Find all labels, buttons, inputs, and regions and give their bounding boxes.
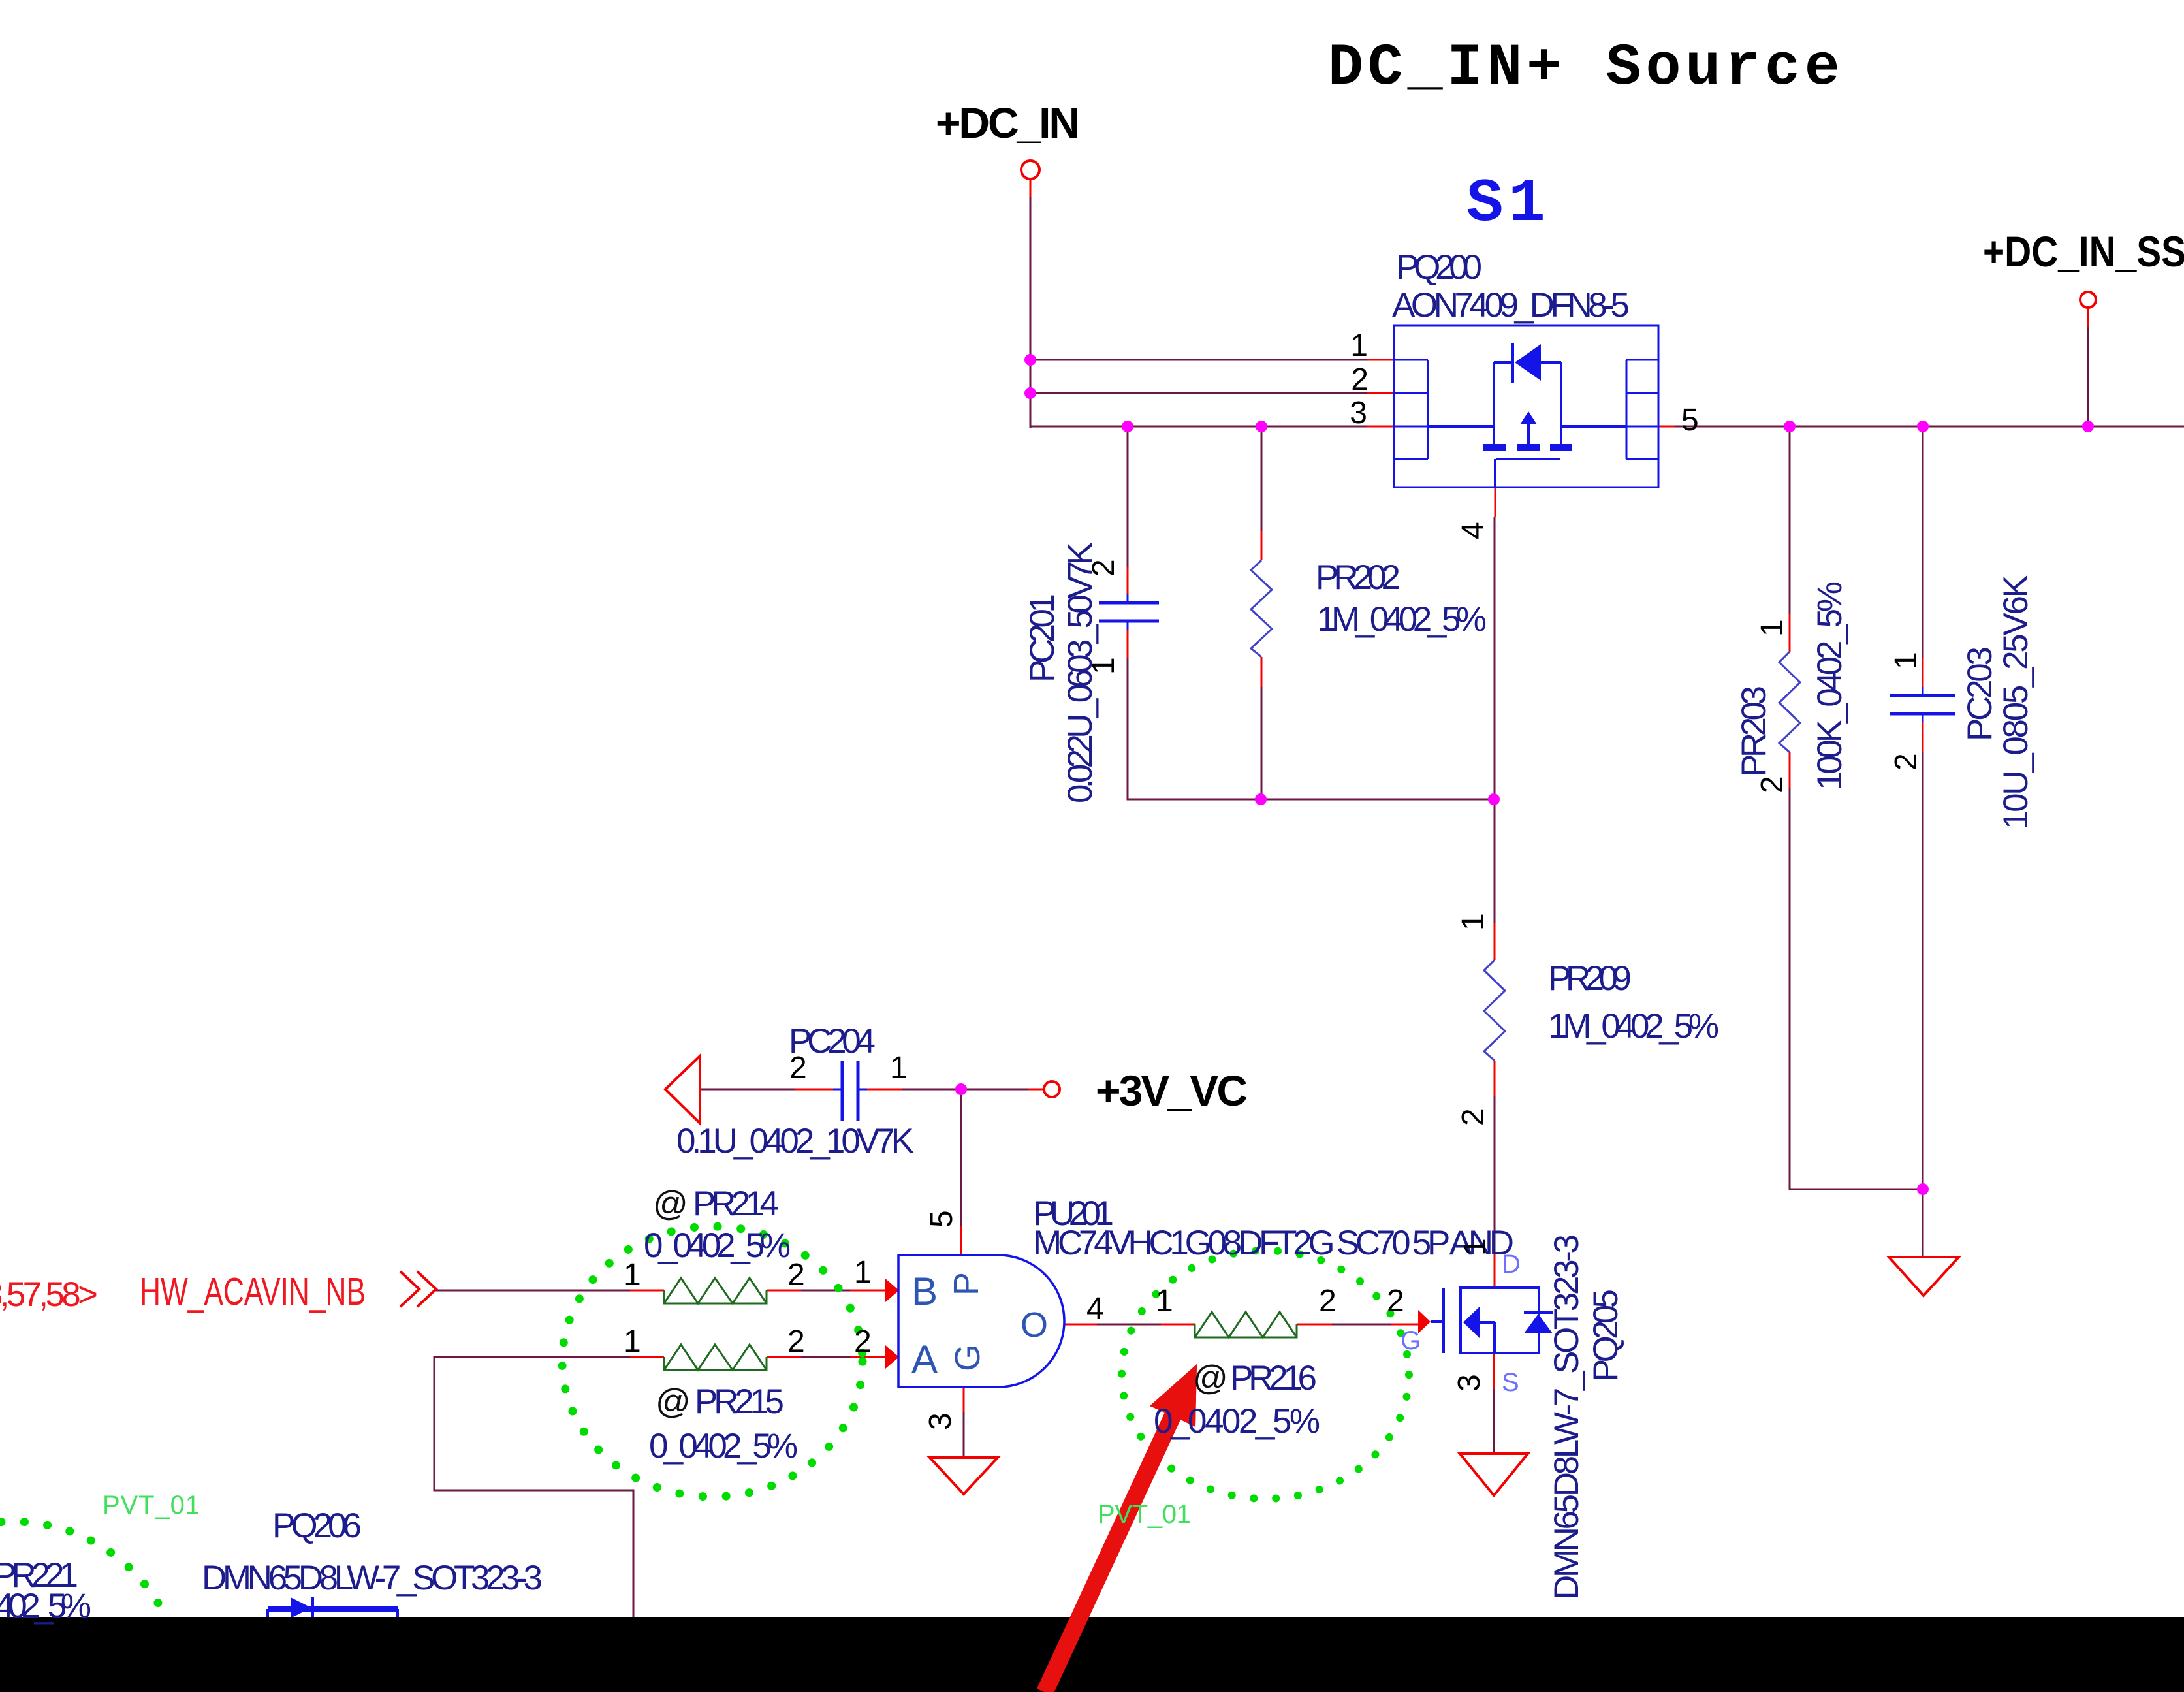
svg-text:AON7409_DFN8-5: AON7409_DFN8-5 — [1392, 286, 1630, 325]
svg-text:0.1U_0402_10V7K: 0.1U_0402_10V7K — [676, 1122, 914, 1160]
svg-text:+DC_IN_SSB: +DC_IN_SSB — [1983, 227, 2184, 276]
svg-text:2: 2 — [854, 1324, 872, 1359]
svg-text:S1: S1 — [1466, 170, 1551, 239]
svg-text:1: 1 — [1889, 652, 1923, 669]
svg-text:2: 2 — [787, 1324, 805, 1359]
svg-text:1M_0402_5%: 1M_0402_5% — [1317, 600, 1487, 639]
svg-text:@: @ — [1193, 1359, 1228, 1397]
svg-text:1: 1 — [890, 1051, 908, 1085]
svg-text:PVT_01: PVT_01 — [103, 1491, 200, 1520]
svg-text:1: 1 — [1456, 913, 1491, 931]
svg-text:O: O — [1021, 1305, 1048, 1345]
svg-text:2: 2 — [1319, 1284, 1337, 1318]
svg-text:2: 2 — [1456, 1108, 1491, 1126]
svg-text:2: 2 — [1889, 753, 1923, 771]
svg-text:PVT_01: PVT_01 — [1098, 1500, 1191, 1529]
svg-text:100K_0402_5%: 100K_0402_5% — [1811, 581, 1849, 790]
svg-text:4: 4 — [1456, 522, 1491, 539]
svg-text:G: G — [948, 1344, 987, 1371]
svg-text:B: B — [911, 1269, 938, 1313]
svg-text:2: 2 — [789, 1051, 807, 1085]
svg-text:PR216: PR216 — [1230, 1359, 1317, 1397]
svg-text:1: 1 — [854, 1255, 872, 1290]
svg-text:0_0402_5%: 0_0402_5% — [644, 1226, 791, 1265]
svg-text:P: P — [947, 1272, 986, 1296]
svg-text:PC203: PC203 — [1961, 646, 1999, 741]
svg-text:1: 1 — [1350, 328, 1368, 363]
svg-text:D: D — [1502, 1250, 1521, 1279]
svg-text:PC201: PC201 — [1023, 594, 1062, 682]
svg-text:8,57,58>: 8,57,58> — [0, 1275, 98, 1314]
svg-text:1: 1 — [1086, 657, 1121, 675]
svg-text:2: 2 — [1086, 559, 1121, 577]
svg-text:S: S — [1502, 1368, 1519, 1397]
svg-text:1: 1 — [624, 1258, 641, 1292]
svg-text:+3V_VC: +3V_VC — [1096, 1066, 1248, 1115]
svg-text:PR214: PR214 — [693, 1185, 779, 1223]
svg-text:PQ206: PQ206 — [272, 1507, 362, 1545]
svg-text:1: 1 — [1458, 1238, 1493, 1256]
svg-text:2: 2 — [1387, 1284, 1404, 1318]
svg-text:1: 1 — [1156, 1284, 1173, 1318]
svg-text:PQ205: PQ205 — [1587, 1289, 1625, 1382]
svg-text:G: G — [1401, 1326, 1421, 1355]
svg-text:HW_ACAVIN_NB: HW_ACAVIN_NB — [140, 1270, 366, 1313]
svg-text:DC_IN+ Source: DC_IN+ Source — [1328, 35, 1844, 102]
svg-text:MC74VHC1G08DFT2G SC70 5P AND: MC74VHC1G08DFT2G SC70 5P AND — [1033, 1224, 1514, 1262]
svg-text:3: 3 — [1452, 1374, 1487, 1392]
svg-text:0402_5%: 0402_5% — [0, 1587, 91, 1625]
svg-text:1: 1 — [1755, 619, 1790, 637]
svg-text:0_0402_5%: 0_0402_5% — [649, 1427, 798, 1465]
svg-text:PR209: PR209 — [1548, 959, 1632, 998]
svg-text:4: 4 — [1086, 1292, 1104, 1326]
svg-text:A: A — [911, 1337, 938, 1381]
svg-text:10U_0805_25V6K: 10U_0805_25V6K — [1997, 575, 2035, 829]
svg-text:@: @ — [656, 1382, 691, 1421]
svg-text:3: 3 — [1350, 396, 1367, 430]
svg-text:1: 1 — [624, 1324, 641, 1359]
svg-text:5: 5 — [925, 1210, 959, 1228]
svg-text:DMN65D8LW-7_SOT323-3: DMN65D8LW-7_SOT323-3 — [1547, 1234, 1586, 1600]
svg-text:@: @ — [653, 1185, 688, 1223]
svg-text:1M_0402_5%: 1M_0402_5% — [1548, 1007, 1719, 1046]
svg-text:2: 2 — [1351, 362, 1369, 397]
svg-text:2: 2 — [787, 1258, 805, 1292]
svg-text:2: 2 — [1755, 776, 1790, 793]
svg-text:5: 5 — [1681, 403, 1699, 438]
svg-text:PR202: PR202 — [1316, 558, 1401, 597]
svg-text:DMN65D8LW-7_SOT323-3: DMN65D8LW-7_SOT323-3 — [202, 1559, 543, 1597]
svg-text:0_0402_5%: 0_0402_5% — [1154, 1402, 1320, 1441]
svg-text:3: 3 — [923, 1413, 958, 1430]
svg-text:PQ200: PQ200 — [1396, 248, 1482, 287]
svg-text:+DC_IN: +DC_IN — [936, 99, 1080, 147]
svg-text:PR203: PR203 — [1735, 686, 1773, 777]
svg-text:PR215: PR215 — [695, 1382, 784, 1421]
